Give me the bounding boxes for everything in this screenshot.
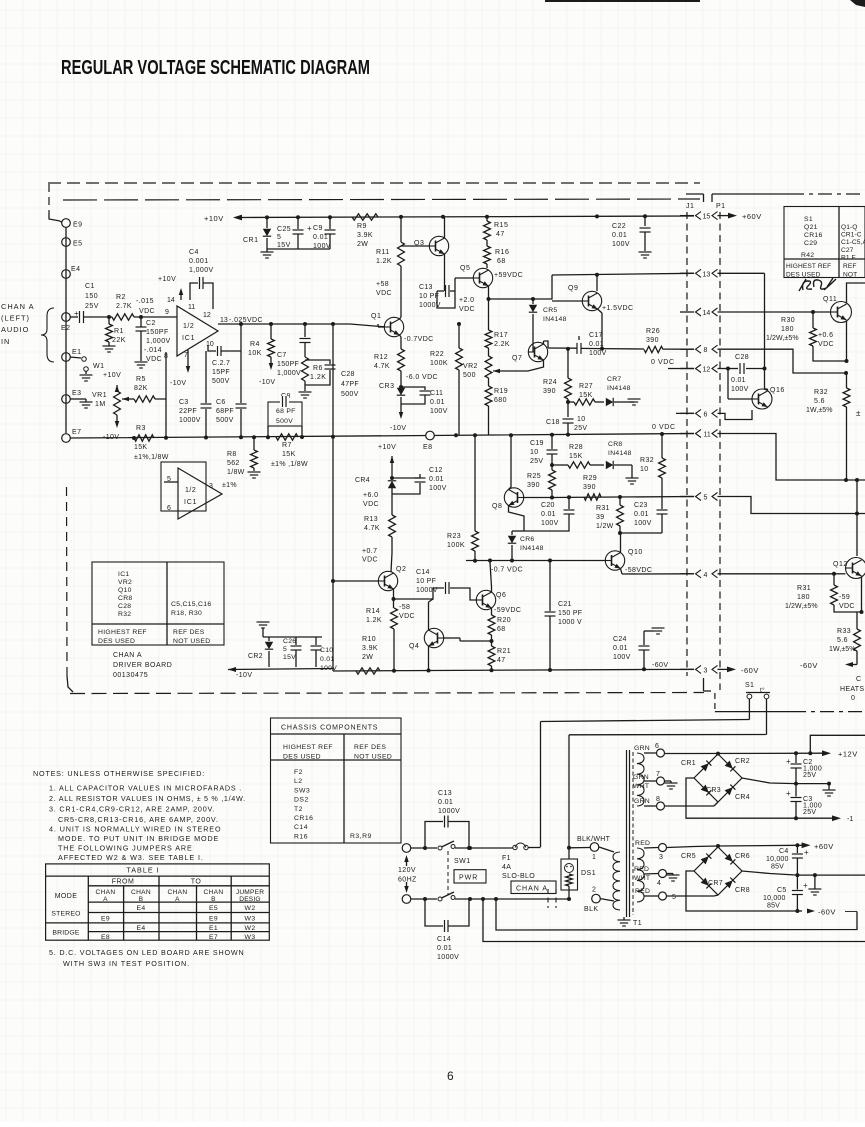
svg-text:100V: 100V [613, 654, 631, 661]
svg-text:VR2: VR2 [463, 363, 478, 370]
resistor R15 [486, 217, 488, 221]
wire Q8 collector [509, 435, 512, 489]
svg-text:CHAN: CHAN [168, 889, 188, 896]
svg-text:4.7K: 4.7K [374, 363, 390, 370]
svg-text:W3: W3 [245, 934, 256, 941]
wire Q7 collector [543, 341, 545, 344]
svg-text:5: 5 [283, 646, 287, 653]
driver board border left top dashed [48, 184, 50, 213]
capacitor C7 [304, 324, 306, 337]
label -60V ps [807, 908, 815, 913]
arrow 120V bottom [406, 882, 408, 888]
svg-text:10: 10 [530, 449, 538, 456]
svg-text:W1: W1 [93, 363, 105, 370]
svg-text:CR2: CR2 [735, 758, 750, 765]
terminal T1-6 [657, 749, 665, 757]
resistor R14 [391, 608, 398, 629]
wire Q2 base [333, 580, 378, 582]
op-amp IC1b box [161, 462, 206, 511]
wire pin8 line [602, 348, 644, 350]
wire +12V riser [810, 735, 865, 753]
svg-text:WITH SW3 IN TEST POSITION.: WITH SW3 IN TEST POSITION. [63, 959, 190, 968]
svg-text:C: C [856, 676, 861, 683]
capacitor C4 [796, 845, 798, 853]
terminal E9 wire stub [60, 221, 62, 223]
P1 connector dashed line [719, 212, 721, 690]
svg-text:180: 180 [781, 326, 794, 333]
R31 value [596, 505, 614, 530]
arrow -60V q12 [853, 664, 857, 666]
terminal T1-1 [590, 843, 599, 852]
svg-text:C10: C10 [320, 647, 333, 654]
wire pin12 stub [668, 368, 694, 370]
svg-text:R26: R26 [646, 328, 660, 335]
svg-text:VR2: VR2 [118, 579, 132, 586]
junction R22 top [457, 322, 461, 326]
terminal E5 [62, 238, 71, 247]
wire Q5 emitter [488, 286, 490, 299]
terminal E2 [62, 313, 71, 322]
svg-text:12: 12 [203, 312, 211, 319]
svg-text:500V: 500V [276, 418, 293, 425]
svg-text:CHAN: CHAN [131, 889, 151, 896]
svg-text:1000 V: 1000 V [558, 619, 582, 626]
P2 connector tick b [555, 889, 557, 908]
svg-text:2W: 2W [362, 654, 373, 661]
svg-text:1W,±5%: 1W,±5% [829, 646, 856, 653]
junction Q3c [441, 215, 445, 219]
connector pin 15 [696, 212, 702, 220]
svg-text:-10V: -10V [259, 379, 275, 386]
C9 value [313, 225, 331, 250]
wire Q12 base [834, 573, 846, 575]
chassis table h2 [354, 744, 392, 761]
svg-text:1/2W: 1/2W [596, 523, 614, 530]
svg-text:390: 390 [527, 482, 540, 489]
svg-text:+: + [804, 848, 809, 857]
chan a driver board label [113, 652, 172, 679]
capacitor C28 [728, 368, 738, 370]
svg-text:CHAN: CHAN [204, 889, 224, 896]
PWR box [454, 870, 486, 883]
svg-text:1000V: 1000V [437, 954, 459, 961]
svg-text:180: 180 [797, 594, 810, 601]
svg-text:IN4148: IN4148 [543, 316, 567, 323]
arrow 120V top [406, 858, 408, 866]
svg-text:15V: 15V [283, 654, 296, 661]
transistor Q9 [582, 291, 601, 310]
junction R3 right [164, 436, 168, 440]
resistor R30 [812, 312, 814, 328]
svg-text:RED: RED [635, 888, 650, 895]
capacitor C12 [392, 474, 420, 478]
svg-text:IC1: IC1 [118, 571, 129, 578]
wire IC1a output [218, 324, 384, 327]
P1 border top dash-dot [790, 193, 865, 195]
bridge rectifier CR1-CR4 [694, 754, 742, 802]
svg-text:100K: 100K [430, 360, 448, 367]
diode CR6 [512, 530, 524, 532]
svg-text:CHAN: CHAN [96, 889, 116, 896]
svg-text:A: A [175, 896, 180, 903]
junction vert333 [331, 435, 335, 439]
svg-text:C4: C4 [779, 848, 789, 855]
label 120V 60HZ [398, 867, 417, 884]
jumper W1 [70, 357, 81, 358]
arrow +10V [233, 215, 242, 221]
svg-text:14: 14 [167, 297, 175, 304]
terminal T1-5 [659, 892, 667, 900]
resistor R20 [488, 615, 495, 635]
resistor R32c [846, 373, 848, 388]
svg-text:1/8W: 1/8W [227, 469, 245, 476]
svg-text:Q2: Q2 [396, 566, 406, 573]
junction CR1 [265, 215, 269, 219]
svg-text:R13: R13 [364, 516, 378, 523]
ground R6 [299, 391, 312, 393]
svg-text:R17: R17 [494, 332, 508, 339]
svg-text:R23: R23 [447, 533, 461, 540]
svg-text:WHT: WHT [634, 875, 650, 882]
transformer T1 primary [613, 852, 620, 910]
svg-text:C22: C22 [612, 223, 626, 230]
svg-text:00130475: 00130475 [113, 672, 148, 679]
svg-text:HIGHEST REF: HIGHEST REF [283, 744, 333, 751]
wire pin8 right [718, 349, 847, 373]
svg-text:15K: 15K [282, 451, 296, 458]
capacitor C24 [643, 631, 645, 645]
driver board border bottom dashed [70, 693, 704, 694]
node C2 top [139, 315, 143, 319]
svg-text:HIGHEST REF: HIGHEST REF [98, 629, 147, 636]
svg-text:±1% ,1/8W: ±1% ,1/8W [271, 461, 308, 468]
svg-text:C28: C28 [118, 603, 131, 610]
terminal E3 [62, 395, 71, 404]
svg-text:150 PF: 150 PF [558, 610, 582, 617]
svg-text:CR1: CR1 [243, 237, 259, 244]
C2 value [803, 759, 822, 779]
svg-text:0.01: 0.01 [613, 645, 628, 652]
wire pin6 right [718, 410, 753, 420]
svg-text:R24: R24 [543, 379, 557, 386]
svg-text:VDC: VDC [139, 308, 155, 315]
junction pin11-857 [855, 478, 859, 482]
junction C8 right [300, 435, 304, 439]
wire pin4 line [622, 573, 694, 575]
table I box [46, 864, 270, 940]
svg-text:3. CR1-CR4,CR9-CR12, ARE 2AMP,: 3. CR1-CR4,CR9-CR12, ARE 2AMP, 200V. [49, 805, 215, 814]
wire C17 line [548, 347, 577, 349]
svg-text:GRN: GRN [634, 798, 650, 805]
svg-text:10: 10 [577, 416, 585, 423]
svg-text:E1: E1 [209, 925, 218, 932]
junction Q9 collector [595, 273, 599, 277]
svg-text:+59VDC: +59VDC [494, 272, 523, 279]
svg-text:-.014: -.014 [144, 347, 162, 354]
svg-text:BLK/WHT: BLK/WHT [577, 836, 611, 843]
driver table h2 [173, 629, 210, 645]
wire hot 2 [455, 847, 513, 849]
svg-text:39: 39 [596, 514, 604, 521]
pin15 +60V [718, 215, 729, 217]
svg-text:3.9K: 3.9K [362, 645, 378, 652]
svg-text:10: 10 [640, 466, 649, 473]
C2 value [146, 320, 171, 345]
svg-text:E5: E5 [73, 241, 83, 248]
R24 value [543, 379, 557, 395]
svg-text:680: 680 [494, 397, 507, 404]
svg-text:R14: R14 [366, 608, 380, 615]
resistor R27 [574, 399, 595, 405]
terminal T1-3 [659, 844, 667, 852]
capacitor C23 [657, 509, 668, 511]
J1 bracket bottom [703, 678, 705, 691]
transformer T1 secondary RED [637, 848, 644, 902]
wire pin8 down [165, 352, 167, 399]
junction C19-R28 [550, 463, 554, 467]
svg-text:-60V: -60V [818, 908, 836, 917]
junction R24 bot [566, 433, 570, 437]
svg-text:-6.0 VDC: -6.0 VDC [406, 374, 438, 381]
wire Q9 emitter [598, 309, 603, 313]
svg-text:11: 11 [188, 304, 195, 311]
transistor Q7 [528, 342, 547, 361]
transistor Q3 [429, 236, 448, 255]
connector pin 12 [696, 365, 702, 373]
svg-text:-58: -58 [399, 604, 410, 611]
svg-text:(LEFT): (LEFT) [1, 314, 30, 323]
R30 value [781, 317, 795, 333]
svg-text:2: 2 [592, 887, 596, 894]
svg-text:R12: R12 [374, 354, 388, 361]
svg-text:5: 5 [277, 234, 281, 241]
C4 value [189, 249, 214, 274]
svg-text:C4: C4 [189, 249, 199, 256]
resistor R16 [486, 240, 488, 246]
svg-text:E8: E8 [101, 934, 110, 941]
R3 value [134, 444, 169, 461]
svg-text:VDC: VDC [459, 306, 475, 313]
capacitor C5 [796, 875, 798, 889]
driver board border corner to E9 [49, 213, 60, 221]
wire hot [411, 847, 437, 849]
C28 value [731, 377, 749, 393]
F1 label [502, 855, 535, 880]
svg-text:4: 4 [657, 880, 661, 887]
VR2 value [463, 363, 478, 379]
svg-text:500V: 500V [341, 391, 359, 398]
label -59 VDC [839, 594, 855, 610]
svg-text:100V: 100V [612, 241, 630, 248]
svg-text:2W: 2W [357, 241, 368, 248]
svg-text:J1: J1 [686, 203, 694, 210]
svg-text:1/2W,±5%: 1/2W,±5% [766, 335, 799, 342]
ground T1-7 [665, 780, 671, 782]
svg-text:CHAN A: CHAN A [516, 886, 548, 893]
svg-text:C28: C28 [341, 371, 355, 378]
junction Q4 base [490, 639, 494, 643]
CR5 value [543, 307, 567, 323]
svg-text:500V: 500V [216, 417, 234, 424]
ref table h1 [786, 263, 831, 279]
svg-text:CR5: CR5 [543, 307, 558, 314]
svg-text:R16: R16 [294, 833, 308, 840]
svg-text:1000V: 1000V [416, 587, 438, 594]
op-amp IC1b [178, 468, 222, 519]
resistor R6 [302, 357, 309, 381]
resistor R31b [833, 574, 835, 585]
svg-text:IN4148: IN4148 [608, 450, 632, 457]
C1 value [85, 283, 99, 310]
svg-text:R31: R31 [797, 585, 811, 592]
wire Q8 emitter [509, 506, 525, 532]
svg-text:500: 500 [463, 372, 476, 379]
svg-text:R27: R27 [579, 383, 593, 390]
junction out333 [331, 322, 335, 326]
svg-text:5. D.C. VOLTAGES ON LED BOARD: 5. D.C. VOLTAGES ON LED BOARD ARE SHOWN [49, 948, 244, 957]
long wire bottom 1 [496, 899, 857, 930]
svg-text:4A: 4A [502, 864, 511, 871]
svg-text:REF DES: REF DES [173, 629, 205, 636]
svg-text:1W,±5%: 1W,±5% [806, 407, 833, 414]
svg-text:15: 15 [703, 214, 711, 221]
transistor Q10 [605, 551, 624, 570]
C20 value [541, 502, 559, 527]
svg-text:1/2: 1/2 [185, 487, 196, 494]
C11 value [430, 390, 448, 415]
svg-text:CR5: CR5 [681, 853, 696, 860]
wire C2C3 gnd [796, 783, 829, 785]
fuse F1 [513, 845, 517, 849]
wire R31-C23 bottom [620, 532, 662, 534]
svg-text:CR4: CR4 [735, 794, 750, 801]
wire RED5 lead [644, 895, 658, 897]
svg-text:E7: E7 [209, 934, 218, 941]
VR1 wiper to R5 [122, 397, 129, 401]
svg-text:CR1-C: CR1-C [841, 232, 862, 239]
long wire bottom 2 [483, 899, 865, 942]
svg-text:C25: C25 [277, 226, 291, 233]
chan a input brace [41, 308, 54, 362]
svg-text:VDC: VDC [399, 613, 415, 620]
svg-text:4.7K: 4.7K [364, 525, 380, 532]
wire C4C5 gnd [814, 875, 816, 889]
wire RED4 lead [644, 873, 658, 876]
wire T2 to primary [601, 899, 615, 901]
svg-text:C26: C26 [283, 638, 296, 645]
svg-text:CR8: CR8 [735, 887, 750, 894]
svg-text:15K: 15K [579, 392, 593, 399]
bridge rectifier CR5-CR8 [694, 847, 742, 895]
R10 value [362, 636, 378, 661]
svg-text:47: 47 [497, 657, 506, 664]
svg-text:47: 47 [496, 231, 505, 238]
capacitor C22 [644, 216, 646, 226]
C3 value [803, 796, 822, 816]
junction R27 left [566, 400, 570, 404]
junction C8 left [266, 435, 270, 439]
resistor R3 [134, 435, 154, 441]
capacitor C19 [551, 435, 553, 449]
svg-text:R21: R21 [497, 648, 511, 655]
R12 value [374, 354, 390, 370]
svg-text:2.7K: 2.7K [116, 303, 132, 310]
svg-text:C7: C7 [277, 352, 287, 359]
svg-text:±1%,1/8W: ±1%,1/8W [134, 454, 169, 461]
svg-text:C20: C20 [541, 502, 555, 509]
resistor R11 [400, 217, 402, 242]
svg-text:500V: 500V [212, 378, 230, 385]
wire Q10 emitter [621, 569, 623, 575]
wire neutral 2 [455, 898, 570, 900]
resistor R19 [488, 378, 490, 386]
chan a audio in text [1, 302, 35, 346]
wire bridge1 plus [742, 778, 796, 784]
svg-text:S1: S1 [745, 682, 754, 689]
resistor R9 [352, 214, 378, 220]
P2 connector tick a [547, 889, 549, 908]
capacitor C13 [437, 290, 444, 292]
label +0.6 VDC [818, 332, 834, 348]
capacitor C4 feedback loop [190, 283, 198, 300]
heatsink border step vertical dashed [714, 693, 716, 712]
wire +60V line [667, 847, 694, 848]
svg-text:E7: E7 [72, 429, 82, 436]
svg-text:1M: 1M [95, 401, 106, 408]
svg-text:STEREO: STEREO [51, 911, 80, 918]
svg-text:15PF: 15PF [212, 369, 230, 376]
svg-text:+10V: +10V [103, 372, 121, 379]
svg-text:4: 4 [704, 572, 708, 579]
capacitor C28b parallel [305, 360, 330, 364]
svg-text:THE FOLLOWING JUMPERS ARE: THE FOLLOWING JUMPERS ARE [58, 844, 193, 853]
svg-text:R33: R33 [837, 628, 851, 635]
transformer T1 core [626, 750, 628, 917]
svg-text:C.2.7: C.2.7 [212, 360, 230, 367]
svg-text:R28: R28 [569, 444, 583, 451]
svg-text:2.2K: 2.2K [494, 341, 510, 348]
svg-text:C17: C17 [589, 332, 603, 339]
capacitor C21 [549, 561, 551, 612]
R14 value [366, 608, 382, 624]
diode CR2 [268, 637, 270, 641]
svg-text:100V: 100V [634, 520, 652, 527]
wire bottom rail -60V [333, 669, 694, 671]
svg-text:0.01: 0.01 [313, 234, 328, 241]
capacitor C14 [394, 588, 445, 599]
label +6.0 VDC [363, 492, 379, 508]
C7 value [277, 352, 301, 377]
svg-text:C18: C18 [546, 419, 560, 426]
wire Q4 emitter [428, 646, 430, 671]
wire fuse right [528, 847, 541, 849]
svg-text:R32: R32 [814, 389, 828, 396]
capacitor C25 [297, 217, 299, 229]
C19 value [530, 440, 544, 465]
terminal T1-4 [659, 870, 667, 878]
connector pin 3 [696, 665, 702, 673]
svg-text:GRN: GRN [634, 745, 650, 752]
transistor Q6 [476, 590, 495, 609]
junction Q6 collector [488, 559, 492, 563]
wire pin11 right [718, 434, 865, 481]
resistor R31 [619, 497, 621, 505]
page scan artifact top line [545, 0, 700, 2]
wire Q9 collector [596, 275, 598, 291]
wire pin4 right [718, 573, 835, 575]
svg-text:1.2K: 1.2K [366, 617, 382, 624]
terminal E9 [62, 219, 71, 228]
